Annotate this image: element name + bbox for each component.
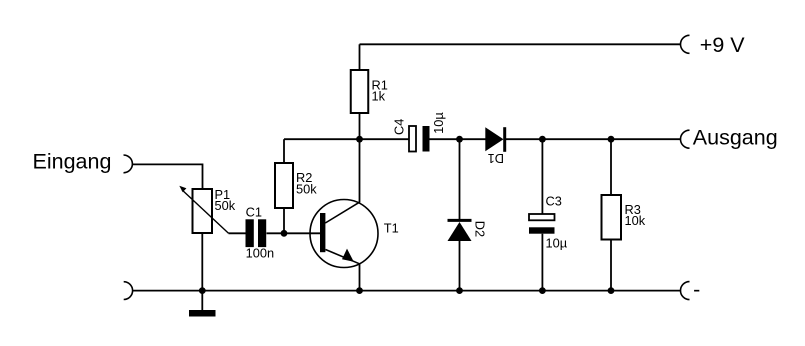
svg-text:D1: D1 [488,151,504,166]
wire R1 bottom lead [359,113,361,139]
svg-text:10µ: 10µ [546,235,568,250]
wire base wire [267,232,321,234]
wire P1 wiper to C1 [229,232,246,234]
wire C3 top lead [541,139,543,214]
capacitor C3 [529,194,568,251]
node C4/D1/D2 junction [456,136,463,143]
svg-text:50k: 50k [296,181,317,196]
potentiometer P1 [179,186,235,234]
ground [189,310,216,317]
node R3 bottom junction [608,287,615,294]
wire R3 top lead [610,139,612,195]
wire ground lead [201,291,203,310]
svg-text:1k: 1k [372,89,386,104]
wire P1 bottom lead [201,233,203,291]
svg-text:50k: 50k [215,198,236,213]
diode D2 [448,220,488,241]
svg-text:T1: T1 [384,221,399,236]
wire emitter lead [359,264,361,291]
connector Eingang [124,155,133,173]
wire R2 top lead [283,139,285,163]
svg-text:+9 V: +9 V [700,33,745,57]
connector bottom-left [124,282,133,300]
node D2 bottom junction [456,287,463,294]
node C3/R3 junction [608,136,615,143]
svg-text:D2: D2 [472,221,487,237]
svg-text:Ausgang: Ausgang [693,126,778,150]
connector Ausgang [681,130,690,148]
wire D1 to Ausgang [506,138,681,140]
wire R2 bottom lead [283,208,285,233]
svg-text:C4: C4 [392,119,407,135]
wire collector lead [359,139,361,202]
svg-text:Eingang: Eingang [33,150,112,174]
wire node to R2 branch [284,138,360,140]
wire bottom rail [133,290,681,292]
wire +9V rail [360,43,681,45]
transistor T1 [310,200,399,268]
svg-text:10k: 10k [625,213,646,228]
connector minus [681,282,690,300]
node P1/ground junction [199,287,206,294]
node R1/C4/collector junction [356,136,363,143]
capacitor C1 [246,204,275,260]
wire Eingang to P1 [132,164,202,189]
wire C3 bottom lead [541,234,543,291]
wire D2 bottom lead [459,241,461,291]
node D1/C3 junction [539,136,546,143]
wire node to C4 [360,138,410,140]
svg-text:C1: C1 [246,204,262,219]
node C1/R2/base junction [281,230,288,237]
svg-text:C3: C3 [546,194,562,209]
svg-text:-: - [693,278,700,302]
wire D2 top lead [459,139,461,219]
connector +9V [681,35,690,53]
node C3 bottom junction [539,287,546,294]
svg-text:10µ: 10µ [431,112,446,134]
resistor R2 [275,163,317,208]
node emitter junction [356,287,363,294]
resistor R3 [602,195,646,240]
resistor R1 [351,70,388,113]
diode D1 [485,127,504,166]
capacitor C4 [392,112,447,152]
wire C4 to D1 [430,138,486,140]
svg-text:100n: 100n [246,246,274,261]
wire R1 top lead [359,44,361,70]
wire R3 bottom lead [610,240,612,291]
